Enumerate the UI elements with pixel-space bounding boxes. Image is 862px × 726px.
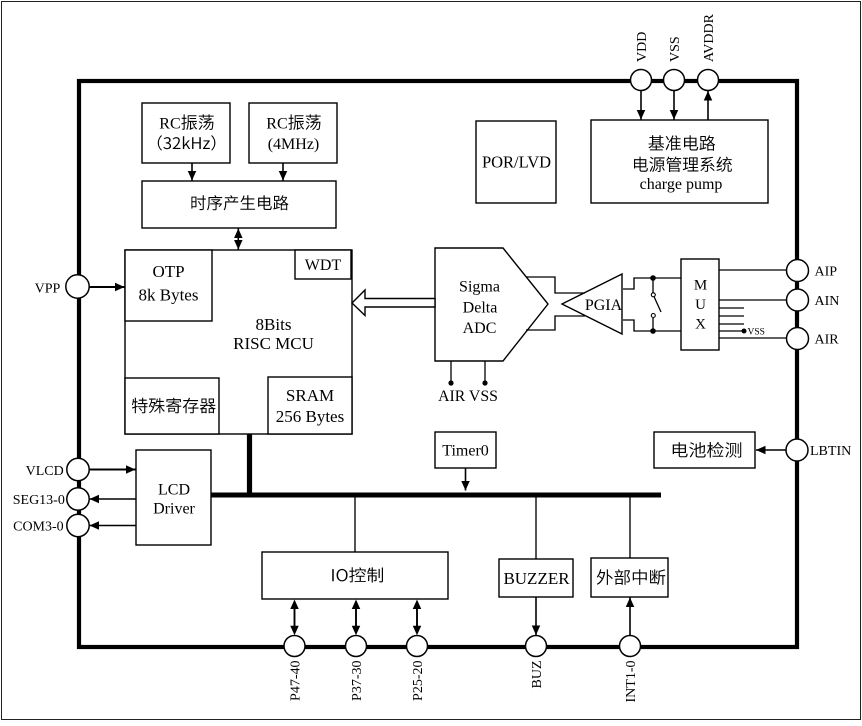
svg-text:RC: RC — [266, 116, 287, 133]
svg-text:Delta: Delta — [463, 300, 498, 317]
svg-text:PGIA: PGIA — [585, 297, 623, 314]
svg-text:AIN: AIN — [815, 294, 840, 309]
svg-text:WDT: WDT — [305, 257, 342, 274]
svg-text:INT1-0: INT1-0 — [624, 661, 639, 703]
svg-text:U: U — [695, 297, 706, 313]
svg-text:SRAM: SRAM — [286, 386, 334, 405]
svg-text:AVDDR: AVDDR — [702, 13, 717, 62]
svg-text:(4MHz): (4MHz) — [268, 136, 320, 153]
svg-text:P25-20: P25-20 — [411, 661, 426, 701]
svg-text:VSS: VSS — [668, 36, 683, 62]
svg-text:P37-30: P37-30 — [350, 661, 365, 701]
svg-text:8k Bytes: 8k Bytes — [139, 286, 199, 305]
svg-text:P47-40: P47-40 — [288, 661, 303, 701]
svg-text:Timer0: Timer0 — [442, 442, 489, 459]
svg-text:RISC MCU: RISC MCU — [233, 334, 314, 353]
svg-text:RC: RC — [159, 116, 180, 133]
svg-text:ADC: ADC — [463, 320, 497, 337]
svg-text:SEG13-0: SEG13-0 — [13, 493, 65, 508]
svg-text:BUZZER: BUZZER — [503, 569, 570, 588]
svg-text:COM3-0: COM3-0 — [13, 520, 64, 535]
svg-text:AIP: AIP — [815, 264, 838, 279]
svg-text:charge pump: charge pump — [640, 176, 723, 193]
svg-text:X: X — [695, 317, 706, 333]
svg-text:Sigma: Sigma — [459, 279, 500, 296]
svg-text:OTP: OTP — [152, 262, 184, 281]
svg-text:8Bits: 8Bits — [256, 315, 292, 334]
svg-text:AIR: AIR — [815, 332, 840, 347]
svg-text:Driver: Driver — [153, 501, 195, 518]
svg-text:LCD: LCD — [158, 481, 190, 498]
svg-text:LBTIN: LBTIN — [810, 444, 851, 459]
svg-text:POR/LVD: POR/LVD — [482, 153, 551, 172]
svg-text:M: M — [694, 278, 707, 294]
svg-text:AIR VSS: AIR VSS — [438, 388, 498, 405]
svg-text:BUZ: BUZ — [530, 661, 545, 689]
svg-text:VSS: VSS — [748, 328, 765, 338]
svg-text:VPP: VPP — [35, 281, 61, 296]
svg-text:VDD: VDD — [635, 32, 650, 62]
svg-text:256 Bytes: 256 Bytes — [276, 407, 344, 426]
svg-text:VLCD: VLCD — [26, 464, 64, 479]
